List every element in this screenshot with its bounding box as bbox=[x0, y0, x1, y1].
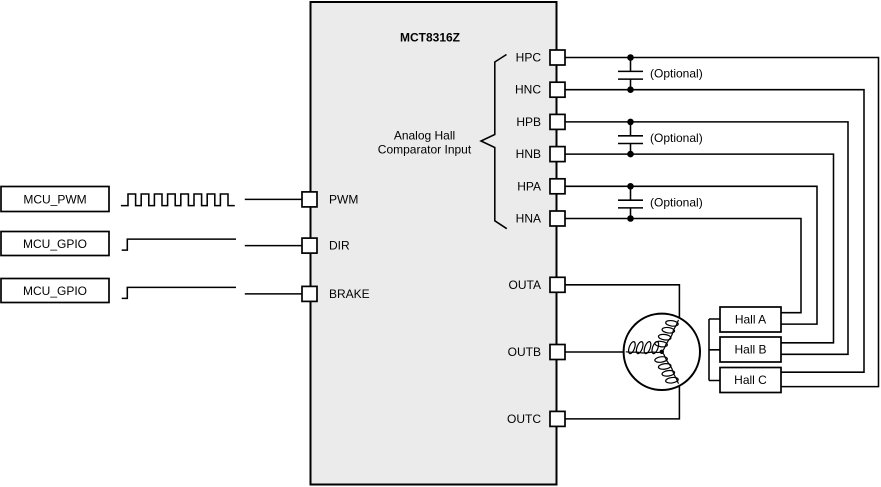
svg-text:Hall A: Hall A bbox=[735, 313, 766, 327]
svg-text:(Optional): (Optional) bbox=[650, 67, 703, 81]
svg-text:HPC: HPC bbox=[516, 51, 542, 65]
svg-text:DIR: DIR bbox=[329, 239, 350, 253]
svg-text:Comparator Input: Comparator Input bbox=[378, 143, 472, 157]
svg-text:BRAKE: BRAKE bbox=[329, 287, 370, 301]
svg-text:Hall B: Hall B bbox=[734, 343, 766, 357]
svg-text:HNA: HNA bbox=[516, 212, 541, 226]
svg-text:HNB: HNB bbox=[516, 147, 541, 161]
svg-text:HNC: HNC bbox=[515, 83, 541, 97]
svg-text:OUTA: OUTA bbox=[509, 278, 541, 292]
svg-text:Analog Hall: Analog Hall bbox=[394, 129, 455, 143]
svg-text:OUTC: OUTC bbox=[507, 412, 541, 426]
svg-text:MCT8316Z: MCT8316Z bbox=[400, 31, 460, 45]
svg-text:Hall C: Hall C bbox=[734, 373, 767, 387]
svg-text:(Optional): (Optional) bbox=[650, 195, 703, 209]
svg-text:MCU_PWM: MCU_PWM bbox=[23, 192, 86, 206]
svg-text:MCU_GPIO: MCU_GPIO bbox=[23, 237, 87, 251]
svg-text:HPB: HPB bbox=[516, 115, 541, 129]
svg-text:HPA: HPA bbox=[517, 179, 541, 193]
svg-text:OUTB: OUTB bbox=[508, 345, 541, 359]
svg-text:MCU_GPIO: MCU_GPIO bbox=[23, 284, 87, 298]
svg-text:PWM: PWM bbox=[329, 192, 358, 206]
svg-text:(Optional): (Optional) bbox=[650, 131, 703, 145]
